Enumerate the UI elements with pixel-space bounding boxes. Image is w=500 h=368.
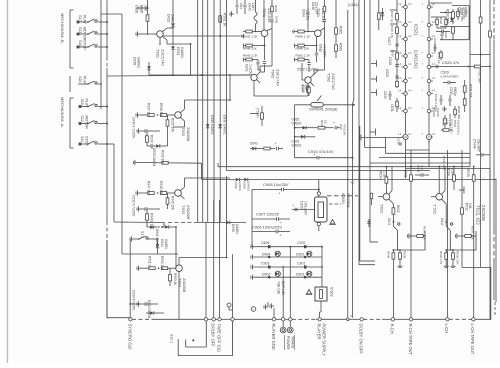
diode D562 bbox=[294, 126, 318, 130]
svg-text:100u/16V: 100u/16V bbox=[304, 201, 308, 216]
label S15 STOP bbox=[78, 40, 87, 50]
label C530 4.7n bbox=[442, 156, 446, 171]
label T522 bbox=[433, 204, 438, 215]
svg-text:S10-1: S10-1 bbox=[170, 334, 174, 343]
wire rail bbox=[113, 144, 115, 222]
svg-text:S13: S13 bbox=[78, 27, 82, 33]
label POWER TRANS bbox=[285, 335, 295, 350]
label R566 4.7K bbox=[301, 84, 309, 92]
label DOLBY OFF bbox=[211, 324, 216, 348]
svg-text:T642: T642 bbox=[271, 69, 276, 79]
mechanism A bracket bbox=[70, 98, 74, 148]
wire bend bbox=[360, 260, 375, 262]
label R532 10K bbox=[465, 203, 473, 211]
wire bus bbox=[489, 0, 492, 319]
svg-text:D930 GA601: D930 GA601 bbox=[223, 115, 227, 135]
switch S12 bbox=[79, 121, 108, 125]
wire rail b bbox=[106, 68, 108, 221]
svg-text:R-CH TAPE OUT: R-CH TAPE OUT bbox=[408, 324, 413, 356]
transistor T933 bbox=[170, 187, 185, 199]
wire bus bbox=[347, 10, 349, 318]
resistor R545 bbox=[261, 106, 264, 126]
resistor R626 bbox=[396, 27, 399, 33]
svg-text:S12: S12 bbox=[80, 116, 84, 122]
capacitor C914 bbox=[275, 142, 284, 151]
wire rail bbox=[106, 0, 108, 57]
wire bbox=[254, 63, 308, 96]
svg-text:D901: D901 bbox=[296, 272, 304, 276]
wire frame TR bbox=[440, 6, 469, 40]
svg-text:R938 33K: R938 33K bbox=[159, 103, 163, 118]
inductor L641 bbox=[254, 0, 257, 32]
svg-text:L-CH TAPE OUT: L-CH TAPE OUT bbox=[470, 324, 475, 355]
label S17 PLAY bbox=[78, 15, 87, 25]
switch S10-1 outer hook bbox=[178, 321, 232, 356]
wire bbox=[260, 29, 272, 73]
wire rail bbox=[232, 254, 234, 317]
svg-text:R530 56K: R530 56K bbox=[446, 9, 450, 24]
wire bbox=[270, 303, 274, 317]
bus wire bbox=[234, 318, 273, 320]
svg-text:S4-6: S4-6 bbox=[440, 218, 444, 225]
resistor R938 bbox=[157, 114, 170, 117]
svg-text:D939: D939 bbox=[243, 182, 247, 190]
transistor T934 bbox=[171, 265, 182, 272]
terminal 4 bbox=[350, 314, 352, 318]
capacitor C530 bbox=[436, 30, 450, 33]
label bbox=[239, 3, 243, 9]
svg-text:D903: D903 bbox=[262, 272, 270, 276]
label R941B 13K bbox=[150, 213, 154, 230]
svg-text:A03: A03 bbox=[339, 124, 343, 130]
wire bbox=[489, 169, 491, 179]
terminal TAPE OFF bbox=[218, 318, 221, 321]
svg-text:6800p: 6800p bbox=[453, 87, 457, 96]
wire pin137 left bbox=[359, 135, 403, 141]
resistor R649 bbox=[271, 0, 274, 19]
resistor R628 bbox=[396, 98, 399, 112]
label T933 2SA608 bbox=[181, 205, 191, 220]
label C936 bbox=[135, 5, 139, 13]
dash link 2 bbox=[329, 203, 341, 205]
svg-text:D902: D902 bbox=[296, 252, 304, 256]
terminal R-CH TAPE OUT bbox=[409, 318, 412, 321]
resistor R937 bbox=[148, 114, 154, 117]
label R565 bbox=[339, 26, 343, 34]
svg-text:47u/16V: 47u/16V bbox=[462, 7, 466, 20]
label R948 33K bbox=[159, 181, 163, 196]
diode D944 bbox=[156, 238, 160, 254]
wire horizontal 2 bbox=[227, 170, 431, 172]
wire horizontal bbox=[107, 75, 251, 76]
svg-text:R631: R631 bbox=[404, 170, 408, 178]
svg-text:IC950: IC950 bbox=[341, 193, 346, 204]
resistor R643b bbox=[244, 58, 259, 62]
svg-text:(L542): (L542) bbox=[348, 3, 358, 7]
svg-text:C646: C646 bbox=[311, 2, 315, 10]
svg-text:R-CH: R-CH bbox=[390, 324, 395, 334]
wire C528 row bbox=[431, 65, 491, 68]
label S10-1 bbox=[170, 334, 174, 343]
label R523 bbox=[437, 52, 441, 64]
wire bbox=[252, 189, 319, 191]
wire rail bbox=[205, 222, 207, 318]
svg-text:4.7n: 4.7n bbox=[420, 165, 424, 171]
resistor R930 bbox=[146, 131, 149, 146]
wire horizontal 179 bbox=[202, 178, 496, 185]
svg-text:R536 17K: R536 17K bbox=[439, 251, 443, 264]
svg-text:GA601: GA601 bbox=[235, 224, 239, 234]
wire bbox=[294, 105, 296, 158]
svg-text:R952 10K: R952 10K bbox=[160, 256, 164, 271]
label R635 bbox=[403, 251, 407, 259]
wire rail bbox=[251, 244, 322, 249]
label DSP-10B bbox=[277, 281, 286, 296]
resistor R541 bbox=[308, 85, 311, 96]
label D944 GA601 bbox=[160, 239, 168, 249]
scan edge line bbox=[7, 0, 9, 363]
wire bbox=[252, 231, 290, 233]
dash link bbox=[327, 195, 358, 197]
svg-text:GA601: GA601 bbox=[292, 121, 302, 125]
capacitor C903 bbox=[268, 265, 271, 268]
label IC950 AN7808 bbox=[341, 193, 351, 208]
wire bbox=[106, 13, 108, 15]
svg-text:R535 15K: R535 15K bbox=[456, 251, 460, 264]
label B519 68K bbox=[448, 114, 452, 129]
label C648 bbox=[275, 16, 279, 24]
transistor T932 bbox=[170, 109, 185, 121]
wire dash right bbox=[494, 302, 496, 317]
wire rail bbox=[289, 246, 291, 318]
label D931 GA601 bbox=[176, 47, 184, 58]
label S7-4 bbox=[140, 231, 144, 238]
svg-text:MOTOR: MOTOR bbox=[85, 116, 89, 130]
switch hook bbox=[398, 231, 426, 251]
wire bbox=[429, 2, 452, 4]
label R-CH bbox=[390, 324, 395, 334]
ground bbox=[444, 264, 449, 268]
wire bus bbox=[202, 0, 204, 222]
svg-text:4.7K: 4.7K bbox=[305, 85, 309, 92]
label C532A bbox=[432, 108, 440, 118]
svg-text:PLAY: PLAY bbox=[83, 76, 87, 86]
svg-text:C906 1000u/25V: C906 1000u/25V bbox=[252, 224, 282, 229]
wire long bbox=[138, 163, 202, 180]
bus wire bbox=[208, 318, 213, 320]
resistor R524 bbox=[440, 50, 443, 60]
terminal bbox=[204, 318, 207, 321]
svg-text:D935: D935 bbox=[133, 57, 137, 65]
header mark bbox=[371, 76, 377, 82]
label R930 15K bbox=[150, 135, 154, 150]
capacitor C906 bbox=[268, 245, 271, 248]
bus dash bbox=[363, 318, 382, 320]
resistor R563h bbox=[295, 58, 310, 62]
wire bbox=[392, 266, 394, 319]
svg-text:GA601: GA601 bbox=[180, 47, 184, 58]
svg-text:R649: R649 bbox=[274, 5, 278, 13]
wire bbox=[405, 150, 407, 179]
wire bus bbox=[197, 0, 199, 222]
svg-text:C627: C627 bbox=[387, 37, 391, 45]
terminal R-CH bbox=[391, 318, 394, 321]
label T934 2SA608 bbox=[177, 278, 187, 293]
resistor R526 bbox=[457, 8, 460, 20]
ground bbox=[137, 301, 141, 306]
wire bbox=[159, 37, 161, 45]
resistor R561b bbox=[323, 0, 326, 19]
label C529 bbox=[441, 70, 460, 78]
diode D542 bbox=[250, 147, 263, 151]
resistor R646 bbox=[294, 30, 311, 33]
svg-text:MECHANISM -B-: MECHANISM -B- bbox=[60, 13, 65, 45]
wire horizontal long bbox=[218, 166, 470, 168]
diode D530 bbox=[450, 18, 454, 22]
svg-text:(T564): (T564) bbox=[256, 108, 260, 117]
label C624 bbox=[433, 38, 437, 51]
resistor R635 bbox=[399, 250, 402, 264]
resistor R941B bbox=[146, 209, 149, 227]
svg-text:+: + bbox=[279, 192, 281, 196]
resistor C531r bbox=[452, 27, 455, 40]
wire bbox=[172, 28, 174, 45]
switch S10 bbox=[79, 104, 108, 108]
label D541 GA601 bbox=[292, 139, 302, 147]
IC521 left pins bbox=[403, 5, 408, 139]
svg-text:C532 0.022u: C532 0.022u bbox=[434, 94, 438, 112]
label C909 100u bbox=[300, 201, 308, 216]
resistor R533 bbox=[472, 166, 475, 190]
diode D936 bbox=[206, 124, 210, 128]
IC902 box bbox=[315, 287, 327, 301]
label D941 GA601 bbox=[155, 229, 159, 248]
svg-text:MOTOR: MOTOR bbox=[83, 27, 87, 41]
resistor bbox=[445, 17, 448, 28]
resistor R644 bbox=[244, 44, 266, 48]
svg-text:C908 10u/25V: C908 10u/25V bbox=[263, 182, 289, 187]
wire rail dash bbox=[106, 221, 108, 240]
capacitor C526 bbox=[465, 7, 468, 17]
svg-text:L641: L641 bbox=[251, 3, 255, 11]
svg-text:R626 47K: R626 47K bbox=[390, 25, 394, 38]
label D938 GA601 bbox=[231, 224, 239, 234]
svg-text:T933: T933 bbox=[181, 205, 186, 215]
wire bbox=[147, 31, 149, 35]
diode D627 bbox=[381, 8, 385, 20]
wire bus bbox=[213, 0, 215, 222]
label R531 56K bbox=[478, 70, 482, 85]
switch S14 bbox=[79, 141, 108, 145]
resistor R546 bbox=[264, 147, 275, 150]
ground bbox=[397, 264, 402, 268]
bus wire bbox=[285, 318, 289, 320]
label (T564) bbox=[256, 108, 260, 117]
svg-text:STOP: STOP bbox=[85, 136, 89, 146]
S10-1 contact mark bbox=[192, 339, 195, 342]
resistor R947 bbox=[148, 192, 154, 195]
svg-text:T622: T622 bbox=[380, 204, 385, 214]
svg-text:SVR541 20K(B): SVR541 20K(B) bbox=[309, 107, 338, 112]
svg-text:R565: R565 bbox=[339, 26, 343, 34]
cap right of pack bbox=[367, 193, 372, 227]
wire collector T934 bbox=[179, 257, 227, 265]
wire bbox=[391, 167, 393, 191]
switch S13 bbox=[77, 31, 108, 35]
label R627 bbox=[390, 11, 394, 22]
svg-text:10K: 10K bbox=[144, 5, 148, 12]
svg-text:D934 GA601: D934 GA601 bbox=[147, 300, 151, 319]
svg-text:C535: C535 bbox=[449, 87, 453, 95]
wire bend bbox=[114, 221, 164, 224]
label C907 220/25 bbox=[256, 212, 280, 217]
label C520 bbox=[397, 138, 401, 145]
svg-text:+: + bbox=[479, 149, 481, 153]
svg-text:C643: C643 bbox=[319, 44, 323, 52]
terminal L-CH TAPE OUT bbox=[472, 318, 475, 321]
label C903 bbox=[261, 262, 269, 266]
svg-text:PLAY: PLAY bbox=[85, 99, 89, 109]
label R939 10K bbox=[161, 150, 165, 165]
label L-CH TAPE OUT bbox=[470, 324, 475, 355]
svg-text:DOLBY ON OFF: DOLBY ON OFF bbox=[359, 324, 364, 355]
svg-text:DSP-10B: DSP-10B bbox=[281, 281, 285, 296]
diode D934 bbox=[146, 311, 164, 315]
svg-text:R563: R563 bbox=[339, 43, 343, 51]
svg-text:R947 100: R947 100 bbox=[147, 181, 151, 195]
capacitor C936 bbox=[136, 7, 148, 10]
wire bbox=[226, 0, 228, 167]
svg-text:0.047uF/50V: 0.047uF/50V bbox=[441, 74, 460, 78]
wire corner horizontal bbox=[462, 222, 491, 267]
capacitor C648 bbox=[267, 20, 274, 30]
capacitor C520 bbox=[399, 143, 402, 145]
label SVR541 20K(B) bbox=[309, 107, 338, 112]
diode D904 bbox=[268, 251, 280, 258]
wire bbox=[428, 150, 430, 167]
terminal bbox=[231, 318, 234, 321]
terminal bbox=[289, 318, 292, 321]
resistor R636 bbox=[392, 250, 395, 266]
resistor R952 bbox=[158, 267, 171, 270]
label D904 bbox=[262, 252, 270, 256]
svg-text:C533: C533 bbox=[417, 165, 421, 173]
bus wire bbox=[152, 318, 204, 320]
label S16 PLAY bbox=[78, 76, 87, 86]
svg-text:T522, 622: T522, 622 bbox=[476, 205, 481, 225]
svg-text:R544: R544 bbox=[320, 120, 324, 128]
resistor R648 bbox=[295, 44, 318, 48]
transistor T562 bbox=[302, 74, 314, 86]
resistor R520 bbox=[454, 106, 457, 118]
svg-text:T641: T641 bbox=[262, 8, 267, 18]
label DOLBY ON OFF bbox=[359, 324, 364, 355]
resistor R535b bbox=[463, 92, 466, 112]
svg-text:R937 100: R937 100 bbox=[147, 103, 151, 117]
label R526 bbox=[460, 8, 464, 21]
svg-text:IC521: IC521 bbox=[414, 24, 419, 36]
svg-text:R634: R634 bbox=[379, 171, 383, 179]
ground bbox=[136, 112, 148, 117]
label C631 bbox=[390, 104, 394, 112]
ground bbox=[450, 264, 455, 268]
label T562 2SC1740 bbox=[326, 73, 336, 90]
wire bus bbox=[479, 0, 482, 267]
label (L542) bbox=[348, 3, 358, 7]
label R535 56K bbox=[469, 84, 473, 99]
label D935 GA601 bbox=[133, 57, 141, 68]
diode D935a bbox=[147, 66, 151, 70]
svg-text:R627 1K: R627 1K bbox=[390, 11, 394, 22]
svg-text:22u/16V: 22u/16V bbox=[315, 2, 319, 15]
bracket S16 bbox=[69, 76, 71, 92]
label R936 10K bbox=[140, 5, 148, 13]
label L-CH bbox=[444, 324, 449, 334]
svg-text:AN7808: AN7808 bbox=[346, 193, 351, 208]
svg-text:GA601: GA601 bbox=[247, 182, 251, 192]
label C640 L641 bbox=[248, 3, 256, 11]
label D901 bbox=[296, 272, 304, 276]
svg-text:PLAY: PLAY bbox=[83, 15, 87, 25]
wire bbox=[263, 0, 265, 30]
svg-text:T934: T934 bbox=[177, 278, 182, 288]
wire bbox=[396, 0, 398, 88]
lamp symbol bbox=[227, 303, 233, 310]
svg-text:+: + bbox=[275, 142, 277, 146]
wire rail bbox=[321, 246, 323, 287]
wire bbox=[148, 238, 158, 240]
diode D938 bbox=[196, 221, 246, 225]
label C629 bbox=[385, 69, 389, 77]
resistor R637 bbox=[408, 233, 426, 238]
wire bend bbox=[370, 241, 378, 243]
header mark bbox=[371, 60, 377, 66]
resistor R935 bbox=[166, 115, 169, 131]
wire bbox=[107, 143, 114, 145]
svg-text:R635: R635 bbox=[403, 251, 407, 259]
label R637 10K bbox=[423, 226, 427, 241]
label R535 15K bbox=[456, 251, 460, 264]
svg-text:2SA608: 2SA608 bbox=[186, 205, 191, 220]
bus wire bbox=[382, 318, 391, 320]
capacitor C534 bbox=[449, 95, 452, 106]
label C906 1000u/25V bbox=[252, 224, 282, 229]
wire bbox=[226, 167, 228, 171]
resistor R530 bbox=[452, 9, 455, 24]
label R642 1.2K bbox=[243, 34, 259, 38]
bus dash bbox=[449, 318, 472, 320]
svg-text:+: + bbox=[280, 234, 282, 238]
label R648 22K bbox=[296, 46, 311, 50]
ground bbox=[137, 128, 141, 133]
svg-text:S5-5: S5-5 bbox=[387, 218, 391, 225]
label R947 100 bbox=[147, 181, 151, 195]
terminal DOLBY OFF bbox=[212, 318, 215, 321]
capacitor C628a bbox=[395, 65, 398, 67]
capacitor C625 bbox=[434, 44, 437, 52]
switch S5-5 bbox=[393, 219, 400, 231]
transistor T641 bbox=[258, 30, 268, 37]
wire horizontal bbox=[470, 54, 490, 56]
label T622 bbox=[380, 204, 385, 214]
resistor R625 bbox=[396, 53, 399, 59]
svg-text:C528 47n: C528 47n bbox=[442, 60, 459, 65]
capacitor C627 bbox=[395, 44, 398, 46]
capacitor C902 bbox=[304, 245, 307, 248]
wire rail bbox=[219, 200, 221, 318]
svg-text:POWER: POWER bbox=[286, 336, 290, 350]
resistor bbox=[377, 13, 380, 19]
